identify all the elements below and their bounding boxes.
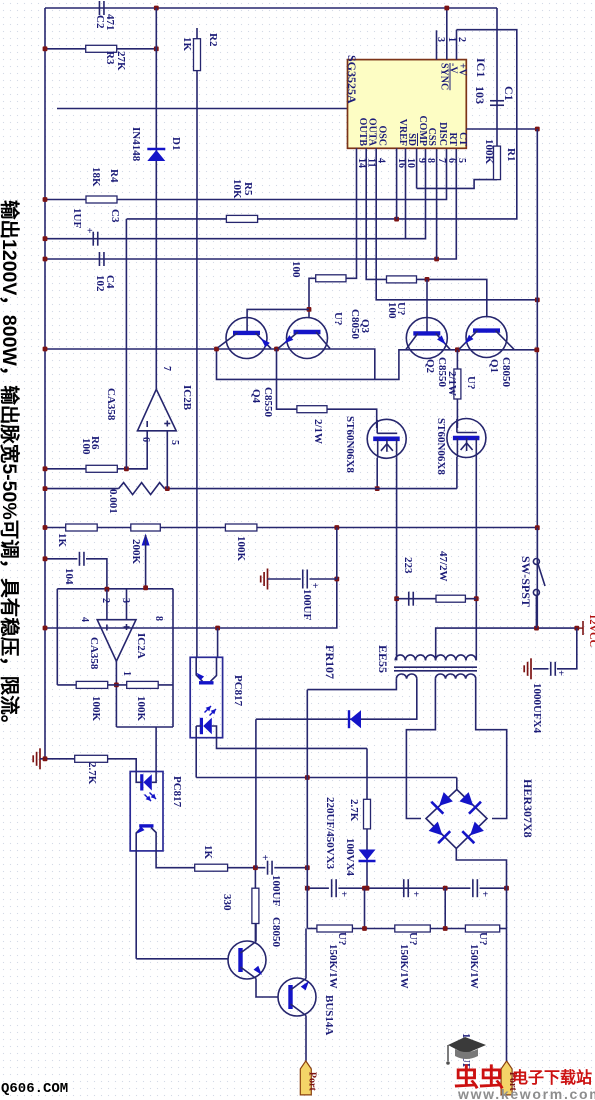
wire M1 gate row	[277, 349, 297, 409]
label 2.7K b	[348, 799, 360, 822]
svg-text:104: 104	[63, 568, 75, 585]
label pin CSS	[426, 128, 437, 147]
svg-text:IC2A: IC2A	[135, 633, 147, 659]
wire shunt row b	[165, 488, 457, 490]
wire left rail	[44, 8, 46, 759]
potentiometer wiper arrow	[142, 534, 150, 588]
junction opto drop	[215, 626, 220, 631]
wire C1 column	[496, 8, 498, 146]
capacitor 100UF b	[263, 853, 273, 875]
svg-text:BUS14A: BUS14A	[323, 995, 335, 1035]
wire snubber col	[475, 528, 477, 661]
label C8050 Q1	[500, 357, 512, 387]
junction lad3	[504, 886, 509, 891]
junction rail-R4	[43, 197, 48, 202]
wire centre tap	[436, 628, 577, 660]
junction R6 node	[124, 466, 129, 471]
label FR107	[323, 645, 337, 679]
wire ebus jog	[217, 349, 537, 379]
label ST60N06X8 M2	[435, 418, 447, 475]
svg-text:SG3525A: SG3525A	[345, 55, 359, 104]
svg-text:0.001: 0.001	[107, 489, 119, 514]
transistor Q1 C8050	[459, 317, 514, 358]
junction rail 2.7K	[43, 756, 48, 761]
label SYNC	[439, 63, 450, 90]
wire M2 gate drop	[456, 399, 458, 428]
junction rail-R3	[43, 46, 48, 51]
wire 104 row b	[86, 559, 107, 590]
label pin DISC	[437, 122, 448, 146]
label U? lad3	[477, 932, 489, 945]
wire 330 col	[254, 868, 256, 889]
wire 1K-cap	[228, 867, 266, 869]
capacitor C1 103	[490, 101, 504, 106]
capacitor 104	[79, 552, 84, 566]
label pin OSC	[377, 125, 388, 146]
pin number 14	[356, 158, 367, 168]
junction pin7 row	[434, 257, 439, 262]
wire opto2 feed	[155, 727, 157, 772]
label PC817 U1	[232, 675, 244, 707]
watermark graduation cap logo	[446, 1035, 488, 1075]
wire sw bottom	[535, 595, 537, 628]
transistor Q6 BUS14A	[278, 978, 316, 1016]
resistor R6 100	[86, 465, 117, 472]
transformer EE55 secondary	[396, 674, 475, 679]
transistor Q4 C8550	[218, 318, 271, 359]
label IC2B	[181, 385, 193, 411]
resistor R3 27K	[86, 45, 117, 52]
svg-text:100VX4: 100VX4	[344, 838, 356, 876]
label 1000UFX4	[531, 683, 543, 734]
resistor 330	[252, 888, 259, 923]
label C1	[502, 86, 516, 101]
power 12VCC symbol	[578, 621, 583, 635]
label 150K/1W 3	[468, 944, 480, 989]
wire port2 col	[506, 888, 508, 928]
wire PC817a br pin	[217, 738, 368, 749]
wire snubber row	[397, 598, 477, 600]
transformer EE55 core	[394, 667, 477, 671]
junction minus node	[105, 587, 110, 592]
wire IC1 pin 16	[396, 148, 398, 219]
svg-text:PC817: PC817	[171, 776, 183, 808]
resistor 1K b	[66, 524, 98, 531]
junction snub left	[394, 596, 399, 601]
label HER307X8	[521, 779, 535, 838]
junction OSC rail	[535, 298, 540, 303]
label EE55	[376, 645, 390, 673]
transistor M2 ST60N06X8	[447, 419, 486, 458]
resistor R1 100K	[494, 146, 501, 180]
label 12VCC	[587, 614, 595, 647]
label 100K d	[90, 696, 102, 722]
svg-text:150K/1W: 150K/1W	[398, 944, 410, 989]
wire pin3 stub	[436, 30, 438, 59]
resistor 200K pot	[131, 524, 161, 531]
junction M1 src	[375, 486, 380, 491]
svg-text:R6: R6	[89, 436, 101, 450]
wire gnd-cap	[268, 578, 301, 580]
svg-text:+: +	[263, 853, 269, 864]
svg-text:IN4148: IN4148	[130, 127, 142, 162]
label C8550 Q4	[262, 387, 274, 417]
svg-text:223: 223	[402, 557, 414, 574]
label 100UF a	[301, 589, 313, 620]
svg-text:6: 6	[446, 158, 457, 163]
svg-text:27K: 27K	[115, 51, 127, 71]
svg-text:1000UFX4: 1000UFX4	[531, 683, 543, 734]
wire PC817b br pin	[156, 851, 195, 868]
label 100 b	[386, 302, 398, 319]
label 1K	[181, 37, 193, 52]
pin 6 IC2B	[140, 437, 151, 442]
wire pin10 drop SD	[405, 148, 407, 238]
label Q1	[488, 359, 500, 373]
label SW-SPST	[519, 556, 533, 607]
svg-text:CA358: CA358	[88, 637, 100, 670]
svg-text:SYNC: SYNC	[439, 63, 450, 90]
wire Q6 emitter	[305, 1016, 307, 1061]
wire sec left a	[307, 679, 396, 690]
resistor R2 1K	[194, 39, 201, 71]
capacitor C3 1UF	[87, 226, 98, 246]
wire 100vx4 col	[366, 829, 368, 888]
junction rail-R6	[43, 466, 48, 471]
label 1K b	[56, 533, 68, 548]
pin 5 IC2B	[169, 440, 180, 445]
svg-text:6: 6	[140, 437, 151, 442]
pin number 10	[405, 158, 416, 168]
svg-text:FR107: FR107	[323, 645, 337, 679]
label IN4148	[130, 127, 142, 162]
label CA358 B	[105, 388, 117, 421]
svg-text:+: +	[559, 669, 565, 680]
label U? b	[395, 302, 407, 315]
junction 2/1W ebus	[455, 347, 460, 352]
wire IC2A out path	[116, 726, 173, 728]
svg-text:+: +	[87, 226, 93, 237]
svg-text:10K: 10K	[231, 179, 243, 199]
svg-text:C8550: C8550	[262, 387, 274, 417]
label pin SD	[406, 133, 417, 146]
optocoupler PC817 U1	[190, 657, 222, 737]
label R3	[104, 51, 116, 65]
junction wiper node	[143, 585, 148, 590]
wire M2 drain	[475, 457, 477, 599]
label 47/2W	[437, 551, 449, 582]
wire reg row	[45, 527, 537, 529]
svg-text:Q4: Q4	[250, 389, 262, 404]
wire opto row	[45, 579, 337, 628]
svg-text:100K: 100K	[90, 696, 102, 722]
label CA358 A	[88, 637, 100, 670]
svg-text:5: 5	[456, 158, 467, 163]
svg-text:18K: 18K	[90, 167, 102, 187]
wire FR107 left col	[255, 719, 257, 868]
label C8550 Q2	[436, 357, 448, 387]
junction plus-in	[165, 486, 170, 491]
wire fb row	[57, 684, 173, 686]
wire PC817a bl pin	[195, 738, 197, 778]
label 10K	[231, 179, 243, 199]
label U? d	[465, 376, 477, 389]
label Q4	[250, 389, 262, 404]
svg-text:R4: R4	[108, 169, 120, 183]
wire Q2 base drop	[426, 279, 428, 333]
capacitor 100UF a	[303, 570, 319, 593]
pin number 4	[376, 158, 387, 163]
label 0.001	[107, 489, 119, 514]
junction rail reg	[43, 525, 48, 530]
label U? lad1	[336, 932, 348, 945]
junction pin1 rail	[444, 6, 449, 11]
ground 12v	[524, 658, 531, 679]
junction 330 top	[253, 865, 258, 870]
svg-text:10: 10	[405, 158, 416, 168]
junction lad2	[443, 886, 448, 891]
svg-text:Q3: Q3	[359, 319, 371, 334]
label pin CT	[457, 132, 468, 146]
svg-text:PC817: PC817	[232, 675, 244, 707]
wire IC2A minus in	[106, 590, 108, 620]
pin number 11	[366, 158, 377, 167]
pin number 1	[446, 37, 457, 42]
label R5	[242, 182, 254, 196]
label +V	[457, 63, 468, 77]
svg-text:U?: U?	[465, 376, 477, 389]
svg-text:100K: 100K	[135, 696, 147, 722]
svg-text:150K/1W: 150K/1W	[327, 944, 339, 989]
label 102	[94, 275, 106, 292]
capacitor 220UF 2	[404, 879, 420, 900]
label 200K	[130, 539, 142, 565]
ground reg	[261, 569, 268, 590]
resistor 100K c	[225, 524, 257, 531]
wire 330 to Q	[254, 924, 256, 942]
bridge HER307X8	[426, 790, 487, 849]
svg-text:Port: Port	[306, 1072, 317, 1092]
wire R5 row	[127, 30, 517, 219]
svg-text:4: 4	[376, 158, 387, 163]
wire PC817a top pin	[217, 628, 219, 657]
svg-text:C3: C3	[109, 209, 121, 223]
pin 4 IC2A	[79, 617, 90, 622]
wire fb right col	[172, 589, 174, 727]
label 18K	[90, 167, 102, 187]
junction R3-D1	[154, 46, 159, 51]
svg-text:330: 330	[221, 894, 233, 911]
resistor 100K d	[76, 681, 108, 688]
optocoupler PC817 U2	[130, 772, 163, 851]
label 100VX4	[344, 838, 356, 876]
wire pin7 drop	[436, 148, 438, 259]
svg-text:100: 100	[290, 261, 302, 278]
label 104	[63, 568, 75, 585]
svg-text:471: 471	[104, 14, 116, 31]
label 330	[221, 894, 233, 911]
resistor 0.001 shunt	[119, 483, 165, 495]
wire FR107 row	[256, 679, 417, 720]
IC IC1 SG3525A body	[348, 60, 467, 149]
junction rail-opto	[43, 626, 48, 631]
svg-text:R5: R5	[242, 182, 254, 196]
label IC2A	[135, 633, 147, 659]
resistor 2/1W b	[454, 369, 461, 399]
junction Q2 base	[425, 277, 430, 282]
op-amp IC2A	[97, 620, 136, 662]
wire bridge bottom	[456, 849, 506, 889]
junction Q3 ebus	[274, 347, 279, 352]
label IC1	[474, 58, 488, 77]
pin 2 IC2A	[100, 598, 111, 603]
capacitor 1000UFX4	[551, 662, 565, 680]
svg-text:102: 102	[94, 275, 106, 292]
label -V	[448, 63, 459, 74]
svg-text:11: 11	[366, 158, 377, 167]
junction rail-C3	[43, 236, 48, 241]
svg-text:2.7K: 2.7K	[348, 799, 360, 822]
wire COMP net	[417, 180, 497, 189]
wire pin11 drop	[366, 148, 386, 279]
svg-text:103: 103	[473, 86, 487, 104]
pin number 5	[456, 158, 467, 163]
svg-text:OSC: OSC	[377, 125, 388, 146]
label C3	[109, 209, 121, 223]
junction rail-shunt	[43, 486, 48, 491]
label 220UF/450VX3	[324, 797, 336, 870]
pin 3 IC2A	[120, 598, 131, 603]
label R4	[108, 169, 120, 183]
svg-text:1K: 1K	[202, 845, 214, 860]
svg-text:100: 100	[386, 302, 398, 319]
label BUS14A	[323, 995, 335, 1035]
svg-text:D1: D1	[170, 137, 182, 150]
label 1UF	[71, 208, 83, 228]
wire cap to gnd	[533, 668, 549, 670]
svg-text:14: 14	[356, 158, 367, 168]
svg-text:100K: 100K	[483, 139, 495, 165]
svg-text:C8050: C8050	[270, 917, 282, 947]
wire ladder bottom row	[307, 928, 317, 930]
svg-text:2: 2	[456, 37, 467, 42]
label 1K c	[202, 845, 214, 860]
junction 100vx4 bot	[365, 886, 370, 891]
junction out top	[305, 865, 310, 870]
wire Q6 collector	[305, 929, 307, 979]
pin number 16	[396, 158, 407, 168]
svg-text:R1: R1	[505, 148, 517, 161]
label 2/1W a	[312, 419, 324, 444]
label R2	[207, 33, 219, 47]
label pin OUTB	[357, 118, 368, 147]
junction pin16-R5	[394, 217, 399, 222]
wire port2 col b	[506, 929, 508, 1061]
label 100UF b	[270, 875, 282, 906]
wire reg cap col	[336, 528, 338, 580]
wire M1 source	[376, 458, 378, 489]
svg-text:OUTA: OUTA	[367, 118, 378, 147]
svg-text:100UF: 100UF	[301, 589, 313, 620]
wire bridge plus row	[196, 777, 457, 779]
junction reg rail	[535, 525, 540, 530]
svg-text:SD: SD	[406, 133, 417, 146]
junction snub right	[474, 596, 479, 601]
label 27K	[115, 51, 127, 71]
svg-text:CSS: CSS	[426, 128, 437, 147]
op-amp IC2B	[138, 389, 177, 431]
wire IC2B plus	[166, 431, 168, 489]
wire shunt row	[45, 488, 119, 490]
junction 537 rail top	[535, 127, 540, 132]
wire 100a to bases	[309, 278, 316, 318]
svg-text:2/1W: 2/1W	[312, 419, 324, 444]
svg-text:EE55: EE55	[376, 645, 390, 673]
svg-text:DISC: DISC	[437, 122, 448, 146]
diode 100VX4	[359, 850, 376, 862]
pin number 7	[436, 158, 447, 163]
wire IC2A out	[115, 661, 117, 727]
wire lad b1	[352, 928, 394, 930]
svg-text:8: 8	[153, 616, 164, 621]
wire 2.7k b col	[366, 748, 368, 799]
resistor 2/1W a	[297, 406, 327, 413]
svg-text:1K: 1K	[181, 37, 193, 52]
wire fb left col	[56, 589, 58, 685]
label SG3525A	[345, 55, 359, 104]
resistor 100 b U?	[387, 276, 417, 283]
svg-text:150K/1W: 150K/1W	[468, 944, 480, 989]
wire OSC row	[376, 148, 537, 299]
wire R6 row	[45, 468, 86, 470]
svg-text:7: 7	[161, 366, 172, 371]
label C8050 out	[270, 917, 282, 947]
junction lad0	[305, 886, 310, 891]
label R6	[89, 436, 101, 450]
pin 1 IC2A	[121, 671, 132, 676]
svg-text:2/1W: 2/1W	[446, 371, 458, 396]
wire R2 stub top	[196, 28, 198, 39]
wire IC2A plus in	[126, 589, 128, 620]
svg-text:1: 1	[446, 37, 457, 42]
wire sw top	[536, 528, 538, 558]
transistor Q5 C8050	[228, 941, 266, 979]
label ST60N06X8 M1	[344, 416, 356, 473]
pin number 3	[435, 37, 446, 42]
junction rail-C4	[43, 257, 48, 262]
svg-text:5: 5	[169, 440, 180, 445]
wire 2.7K row	[40, 758, 75, 760]
wire top rail	[45, 7, 497, 9]
label C8050 Q3	[349, 309, 361, 339]
wire pin1 to rail	[446, 8, 448, 60]
wire sec right right end	[476, 679, 507, 819]
watermark Q606.COM	[1, 1081, 68, 1097]
wire IC1 pin 9	[416, 148, 418, 188]
svg-text:7: 7	[436, 158, 447, 163]
wire lad b3	[500, 928, 507, 930]
label 2.7K a	[86, 762, 98, 785]
label pin COMP	[417, 115, 428, 146]
ground left bottom	[33, 748, 40, 769]
pin number 2	[456, 37, 467, 42]
svg-text:HER307X8: HER307X8	[521, 779, 535, 838]
port P1	[300, 1061, 317, 1095]
label 100 a	[290, 261, 302, 278]
transistor M1 ST60N06X8	[367, 419, 406, 458]
pin 7 IC2B	[161, 366, 172, 371]
resistor 2.7K b	[364, 799, 371, 829]
